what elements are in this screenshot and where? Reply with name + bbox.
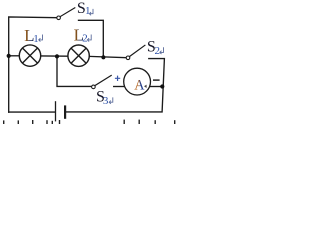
svg-text:2: 2 <box>155 45 161 57</box>
svg-text:2: 2 <box>82 33 88 45</box>
svg-text:A: A <box>134 78 145 94</box>
svg-text:3: 3 <box>103 95 109 107</box>
svg-text:1: 1 <box>33 33 39 45</box>
svg-text:1: 1 <box>85 5 91 17</box>
